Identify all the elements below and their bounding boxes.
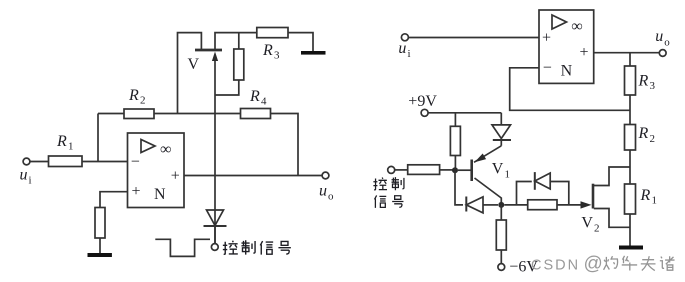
- node C junction: [498, 202, 504, 208]
- diode (bypass, pointing left): [517, 182, 532, 205]
- svg-text:−: −: [543, 60, 552, 77]
- label 控制信号 (left): [223, 241, 238, 255]
- control terminal (right): [388, 166, 395, 173]
- wire node B down to lower diode: [455, 170, 463, 205]
- wire R4 to output: [271, 114, 299, 176]
- svg-text:i: i: [408, 48, 411, 60]
- input terminal ui: [23, 158, 30, 165]
- resistor R3 (right): [625, 66, 636, 95]
- wire ui to R1: [30, 161, 49, 163]
- resistor R3: [257, 28, 288, 38]
- svg-text:i: i: [29, 175, 32, 187]
- control pulse waveform: [155, 239, 210, 256]
- wire feedback from inverting input: [510, 68, 630, 111]
- resistor (base bias): [450, 126, 460, 155]
- svg-text:2: 2: [650, 133, 656, 145]
- svg-text:CSDN: CSDN: [531, 258, 580, 274]
- diode (lower left, pointing left): [465, 197, 467, 212]
- control terminal: [211, 244, 218, 251]
- ground (right): [619, 246, 643, 250]
- node B junction: [452, 167, 458, 173]
- resistor (to -6V): [496, 220, 506, 250]
- wire R1 to ground: [629, 214, 631, 246]
- wire resistor to node B: [440, 169, 455, 171]
- wire feedback riser node A: [97, 114, 99, 162]
- svg-text:1: 1: [505, 169, 511, 181]
- wire R2 to R1: [629, 150, 631, 184]
- svg-text:V: V: [188, 56, 200, 73]
- wire R1 to op-amp inverting input: [82, 161, 128, 163]
- wire resistor bottom to gate line: [215, 80, 239, 95]
- svg-text:+: +: [171, 168, 180, 185]
- transistor V (FET channel bar): [195, 49, 222, 52]
- wire op-amp output to uo (right): [594, 52, 660, 54]
- wire op-amp + input to ground resistor: [100, 192, 128, 208]
- resistor (FET drain pull): [238, 33, 240, 49]
- svg-text:2: 2: [594, 223, 600, 235]
- wire uo node to R3: [629, 53, 631, 66]
- svg-text:o: o: [664, 37, 670, 49]
- diode (control): [207, 210, 224, 226]
- ground: [301, 51, 326, 55]
- +9V terminal: [421, 109, 428, 116]
- svg-text:∞: ∞: [160, 141, 171, 158]
- wire diode to control terminal: [214, 226, 216, 244]
- wire R3 to R2: [629, 95, 631, 125]
- wire node C to gate resistor: [504, 204, 527, 206]
- resistor R1: [49, 156, 83, 167]
- svg-text:R: R: [640, 187, 651, 204]
- diode (emitter, vertical): [500, 113, 502, 125]
- op-amp N (left): [128, 133, 185, 208]
- svg-text:u: u: [655, 28, 663, 45]
- svg-text:+: +: [542, 30, 551, 47]
- -6V terminal: [498, 264, 505, 271]
- wire op-amp output to uo: [184, 175, 322, 177]
- svg-text:u: u: [20, 167, 28, 184]
- transistor V2 (FET): [592, 184, 595, 209]
- resistor (V2 gate): [528, 200, 557, 210]
- svg-text:1: 1: [652, 195, 658, 207]
- svg-text:R: R: [638, 125, 649, 142]
- svg-text:R: R: [249, 88, 260, 105]
- svg-text:+9V: +9V: [408, 93, 437, 110]
- svg-text:R: R: [262, 42, 273, 59]
- op-amp N (right): [539, 10, 594, 83]
- resistor (noninverting bias): [95, 208, 105, 239]
- wire resistor to ground: [99, 238, 101, 253]
- wire ui to op-amp: [409, 37, 540, 39]
- svg-text:R: R: [56, 133, 67, 150]
- label 控制 信号 (right): [373, 178, 387, 190]
- wire node C to -6V resistor: [500, 205, 502, 220]
- svg-text:V: V: [492, 161, 504, 178]
- transistor V1 (PNP): [470, 160, 473, 182]
- watermark 灼华夫诸: [604, 256, 618, 270]
- resistor R2 (right): [625, 125, 636, 151]
- wire R3 to ground: [288, 33, 313, 51]
- svg-text:N: N: [561, 63, 573, 80]
- input terminal ui (right): [401, 34, 408, 41]
- resistor R2: [124, 109, 154, 119]
- svg-text:R: R: [128, 87, 139, 104]
- wire resistor to V2 gate with arrow: [557, 204, 582, 206]
- wire resistor to node: [454, 156, 456, 171]
- svg-text:u: u: [398, 40, 406, 57]
- wire node B to V1 base: [458, 169, 472, 171]
- svg-text:R: R: [638, 73, 649, 90]
- svg-text:∞: ∞: [571, 18, 582, 35]
- resistor (control input): [408, 165, 440, 175]
- wire control to resistor: [395, 169, 408, 171]
- FET gate arrow: [214, 58, 216, 244]
- svg-text:o: o: [328, 191, 334, 203]
- svg-text:+: +: [132, 183, 141, 200]
- wire left riser to FET drain: [178, 33, 202, 114]
- wire to R2: [98, 113, 124, 115]
- wire rail to bias resistor: [454, 113, 456, 127]
- svg-text:−: −: [131, 154, 140, 171]
- resistor R1 (right): [625, 184, 636, 214]
- wire R2 to R4: [154, 113, 241, 115]
- svg-text:3: 3: [274, 50, 280, 62]
- output terminal uo (right): [659, 50, 666, 57]
- svg-text:@: @: [584, 254, 603, 275]
- svg-text:N: N: [154, 186, 166, 203]
- svg-text:3: 3: [650, 80, 656, 92]
- svg-text:+: +: [580, 44, 589, 61]
- output terminal uo: [322, 172, 329, 179]
- wire FET source lead to top rail: [215, 33, 257, 49]
- svg-text:4: 4: [261, 96, 267, 108]
- svg-text:V: V: [581, 215, 593, 232]
- resistor R4: [241, 109, 271, 119]
- ground: [88, 253, 112, 257]
- wire +9V rail: [428, 112, 501, 114]
- svg-text:1: 1: [68, 141, 74, 153]
- svg-text:2: 2: [140, 95, 146, 107]
- svg-text:u: u: [319, 183, 327, 200]
- wire resistor to -6V terminal: [500, 250, 502, 263]
